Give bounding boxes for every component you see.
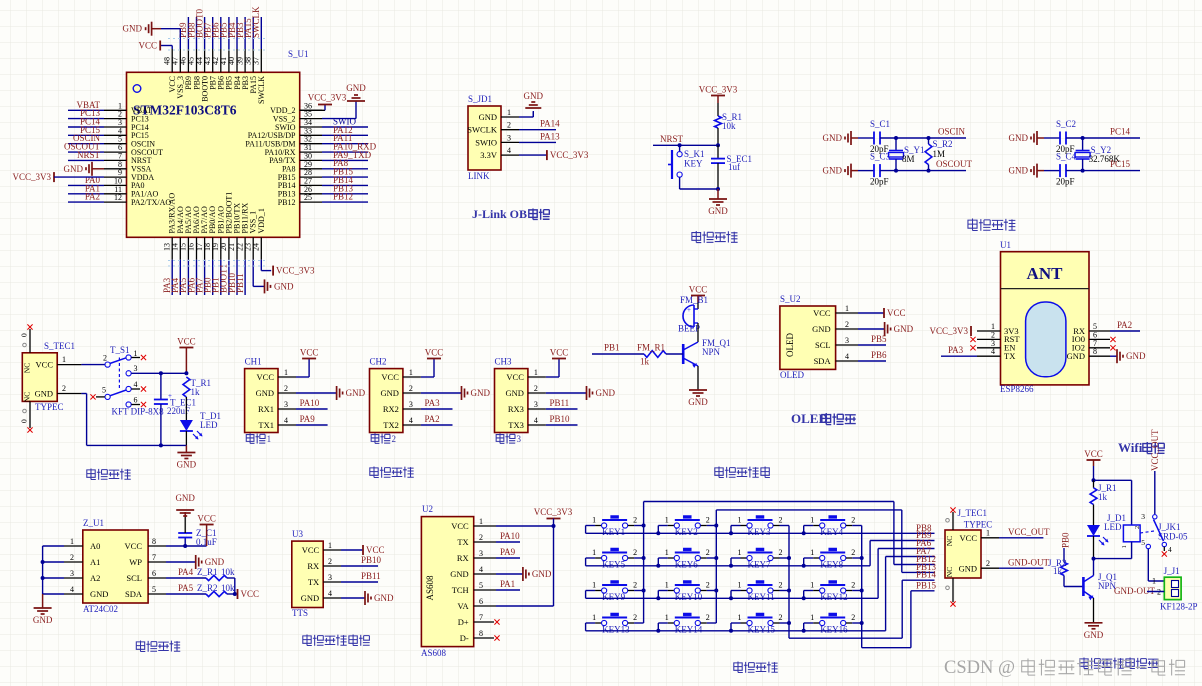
- svg-text:VCC: VCC: [300, 348, 319, 358]
- svg-text:4: 4: [507, 146, 511, 155]
- svg-text:0: 0: [20, 419, 29, 423]
- svg-text:2: 2: [633, 581, 637, 590]
- svg-text:2: 2: [479, 533, 483, 542]
- svg-text:VCC: VCC: [813, 308, 831, 318]
- svg-text:VCC: VCC: [960, 533, 978, 543]
- svg-text:24: 24: [252, 243, 261, 251]
- svg-text:RX3: RX3: [508, 404, 524, 414]
- svg-text:GND: GND: [64, 164, 84, 174]
- svg-text:1: 1: [665, 516, 669, 525]
- svg-text:KEY7: KEY7: [748, 560, 771, 570]
- svg-text:2: 2: [845, 320, 849, 329]
- svg-text:KEY: KEY: [684, 159, 703, 169]
- svg-text:GND: GND: [708, 206, 728, 216]
- svg-text:WP: WP: [129, 557, 142, 567]
- svg-text:PA14: PA14: [540, 119, 560, 129]
- svg-text:1: 1: [738, 548, 742, 557]
- svg-text:2: 2: [392, 434, 397, 444]
- svg-text:1: 1: [738, 581, 742, 590]
- svg-text:AS608: AS608: [421, 648, 447, 658]
- svg-text:KEY15: KEY15: [748, 625, 776, 635]
- svg-text:3: 3: [507, 133, 511, 142]
- svg-text:SWIO: SWIO: [475, 137, 497, 147]
- svg-text:2: 2: [986, 559, 990, 568]
- svg-text:GND: GND: [374, 593, 394, 603]
- svg-text:5: 5: [102, 386, 106, 395]
- svg-text:VCC: VCC: [451, 521, 469, 531]
- svg-text:SDA: SDA: [814, 356, 832, 366]
- svg-text:PB11: PB11: [235, 273, 245, 293]
- svg-text:8: 8: [479, 629, 483, 638]
- svg-text:KEY13: KEY13: [602, 625, 630, 635]
- svg-text:PA3: PA3: [425, 398, 441, 408]
- svg-text:1k: 1k: [1053, 566, 1063, 576]
- svg-text:VCC: VCC: [887, 308, 906, 318]
- svg-text:KEY8: KEY8: [820, 560, 843, 570]
- svg-text:PA4: PA4: [178, 567, 194, 577]
- svg-text:KEY11: KEY11: [748, 592, 775, 602]
- svg-text:PB5: PB5: [871, 334, 887, 344]
- svg-text:PA1: PA1: [500, 579, 515, 589]
- svg-text:SWCLK: SWCLK: [257, 76, 266, 104]
- svg-text:NPN: NPN: [702, 347, 721, 357]
- svg-text:GND: GND: [596, 388, 616, 398]
- svg-text:LINK: LINK: [468, 171, 490, 181]
- svg-text:GND: GND: [471, 388, 491, 398]
- svg-text:1: 1: [592, 548, 596, 557]
- svg-text:GND-OUT: GND-OUT: [1008, 558, 1049, 568]
- svg-text:4: 4: [284, 416, 288, 425]
- svg-text:2: 2: [62, 384, 66, 393]
- svg-text:2: 2: [633, 516, 637, 525]
- svg-text:1k: 1k: [640, 357, 650, 367]
- svg-text:4: 4: [845, 352, 849, 361]
- svg-text:GND: GND: [380, 388, 398, 398]
- svg-text:ESP8266: ESP8266: [1000, 384, 1034, 394]
- svg-text:PB1: PB1: [604, 343, 620, 353]
- svg-text:2: 2: [1134, 526, 1141, 529]
- svg-text:GND: GND: [479, 112, 497, 122]
- svg-text:2: 2: [534, 384, 538, 393]
- svg-text:PA2: PA2: [85, 192, 100, 202]
- svg-text:1: 1: [284, 368, 288, 377]
- svg-text:10k: 10k: [221, 567, 235, 577]
- svg-text:PB0: PB0: [1061, 532, 1071, 548]
- svg-text:1: 1: [810, 581, 814, 590]
- svg-text:2: 2: [779, 548, 783, 557]
- svg-text:1: 1: [592, 613, 596, 622]
- svg-text:OSCIN: OSCIN: [938, 127, 966, 137]
- svg-text:8: 8: [1093, 347, 1097, 356]
- svg-text:PA10: PA10: [300, 398, 320, 408]
- svg-text:1: 1: [986, 529, 990, 538]
- svg-text:GND: GND: [256, 388, 274, 398]
- svg-text:CH1: CH1: [245, 357, 262, 367]
- svg-text:NC: NC: [945, 567, 954, 577]
- svg-text:VCC: VCC: [257, 372, 275, 382]
- svg-text:Z_U1: Z_U1: [83, 518, 104, 528]
- svg-text:VCC: VCC: [36, 360, 54, 370]
- svg-text:1M: 1M: [933, 149, 946, 159]
- svg-text:GND: GND: [346, 388, 366, 398]
- svg-text:3: 3: [70, 569, 74, 578]
- svg-text:OLED: OLED: [785, 333, 795, 357]
- svg-text:VCC_3V3: VCC_3V3: [308, 93, 347, 103]
- svg-text:S_C1: S_C1: [870, 119, 890, 129]
- svg-text:PB10: PB10: [550, 414, 571, 424]
- svg-text:1: 1: [134, 349, 138, 358]
- svg-text:KFT DIP-8X8: KFT DIP-8X8: [112, 407, 165, 417]
- svg-text:6: 6: [479, 597, 483, 606]
- svg-text:GND: GND: [1009, 166, 1029, 176]
- svg-text:GND: GND: [123, 24, 143, 34]
- svg-text:VDD_1: VDD_1: [257, 208, 266, 233]
- svg-text:SCL: SCL: [815, 340, 831, 350]
- svg-text:1: 1: [738, 613, 742, 622]
- svg-text:PC15: PC15: [1110, 159, 1131, 169]
- svg-text:GND: GND: [688, 397, 708, 407]
- svg-text:NRST: NRST: [660, 134, 684, 144]
- svg-text:J_J1: J_J1: [1164, 566, 1180, 576]
- svg-text:1: 1: [810, 613, 814, 622]
- svg-text:GND: GND: [959, 564, 977, 574]
- svg-text:2: 2: [851, 516, 855, 525]
- svg-text:4: 4: [328, 589, 332, 598]
- svg-text:1: 1: [665, 581, 669, 590]
- svg-text:U3: U3: [292, 529, 303, 539]
- svg-text:VCC_3V3: VCC_3V3: [12, 172, 51, 182]
- svg-text:3: 3: [517, 434, 522, 444]
- svg-text:TX2: TX2: [383, 420, 399, 430]
- svg-text:A1: A1: [90, 557, 100, 567]
- svg-text:SDA: SDA: [125, 589, 143, 599]
- svg-text:1: 1: [479, 517, 483, 526]
- svg-text:GND: GND: [1009, 133, 1029, 143]
- svg-text:GND: GND: [823, 166, 843, 176]
- svg-text:NRST: NRST: [77, 150, 101, 160]
- svg-text:GND: GND: [177, 460, 197, 470]
- svg-text:ANT: ANT: [1027, 264, 1064, 283]
- svg-text:2: 2: [706, 548, 710, 557]
- svg-text:PA9: PA9: [500, 547, 516, 557]
- svg-text:3: 3: [1141, 512, 1145, 521]
- svg-text:OSCOUT: OSCOUT: [936, 159, 973, 169]
- svg-text:5: 5: [1141, 538, 1145, 547]
- svg-text:GND: GND: [175, 493, 195, 503]
- svg-text:GND: GND: [1067, 351, 1085, 361]
- svg-text:U1: U1: [1000, 240, 1011, 250]
- svg-text:D+: D+: [458, 617, 469, 627]
- svg-text:1: 1: [845, 304, 849, 313]
- svg-text:25: 25: [304, 193, 312, 202]
- svg-text:VCC_3V3: VCC_3V3: [699, 85, 738, 95]
- svg-text:VCC: VCC: [125, 541, 143, 551]
- svg-text:SWCLK: SWCLK: [251, 6, 261, 38]
- svg-text:VCC: VCC: [689, 285, 708, 295]
- svg-text:4: 4: [134, 380, 138, 389]
- svg-text:TX: TX: [308, 577, 319, 587]
- svg-text:VCC: VCC: [138, 41, 157, 51]
- svg-text:PA13: PA13: [540, 131, 560, 141]
- svg-text:CSDN @: CSDN @: [944, 658, 1015, 678]
- svg-text:3: 3: [134, 364, 138, 373]
- svg-text:2: 2: [851, 613, 855, 622]
- svg-text:5: 5: [152, 585, 156, 594]
- svg-text:2: 2: [633, 613, 637, 622]
- svg-text:12: 12: [114, 193, 122, 202]
- svg-text:37: 37: [252, 57, 261, 65]
- svg-text:D-: D-: [460, 633, 469, 643]
- svg-text:GND: GND: [450, 569, 468, 579]
- svg-text:SWCLK: SWCLK: [467, 125, 498, 135]
- svg-text:PB12: PB12: [333, 192, 353, 202]
- svg-text:PA9: PA9: [300, 414, 316, 424]
- svg-text:KEY4: KEY4: [820, 527, 843, 537]
- svg-text:NPN: NPN: [1098, 581, 1117, 591]
- svg-text:S_C4: S_C4: [1056, 152, 1077, 162]
- svg-text:RX: RX: [307, 561, 319, 571]
- svg-text:KEY14: KEY14: [675, 625, 703, 635]
- svg-text:A0: A0: [90, 541, 100, 551]
- svg-text:2: 2: [103, 354, 107, 363]
- svg-text:VCC: VCC: [550, 348, 569, 358]
- svg-text:TX: TX: [457, 537, 468, 547]
- svg-text:S_C2: S_C2: [1056, 119, 1076, 129]
- svg-text:VCC: VCC: [366, 545, 385, 555]
- svg-text:TYPEC: TYPEC: [35, 402, 64, 412]
- svg-text:2: 2: [706, 613, 710, 622]
- svg-text:VCC: VCC: [381, 372, 399, 382]
- svg-text:10k: 10k: [221, 583, 235, 593]
- svg-text:1: 1: [665, 548, 669, 557]
- svg-text:T_S1: T_S1: [110, 345, 130, 355]
- svg-text:1k: 1k: [1098, 492, 1108, 502]
- svg-text:KEY9: KEY9: [602, 592, 625, 602]
- svg-text:A2: A2: [90, 573, 100, 583]
- svg-text:GND: GND: [1126, 351, 1146, 361]
- svg-text:KEY2: KEY2: [675, 527, 698, 537]
- svg-text:KEY3: KEY3: [748, 527, 771, 537]
- svg-text:GND: GND: [524, 91, 544, 101]
- svg-text:GND: GND: [1084, 630, 1104, 640]
- svg-text:2: 2: [70, 553, 74, 562]
- svg-text:VCC_3V3: VCC_3V3: [550, 150, 589, 160]
- svg-text:J_JK1: J_JK1: [1158, 522, 1181, 532]
- svg-text:S_U1: S_U1: [288, 49, 309, 59]
- svg-text:1: 1: [738, 516, 742, 525]
- svg-text:1k: 1k: [191, 387, 201, 397]
- svg-text:KEY12: KEY12: [820, 592, 848, 602]
- svg-text:TTS: TTS: [292, 608, 308, 618]
- svg-text:3: 3: [845, 336, 849, 345]
- svg-text:PA2: PA2: [1117, 320, 1132, 330]
- svg-text:1: 1: [62, 355, 66, 364]
- svg-text:4: 4: [534, 416, 538, 425]
- svg-text:4: 4: [70, 585, 74, 594]
- svg-text:NC: NC: [23, 392, 32, 402]
- svg-text:KEY16: KEY16: [820, 625, 848, 635]
- svg-text:VCC: VCC: [197, 514, 216, 524]
- svg-text:OLED: OLED: [780, 370, 804, 380]
- svg-text:GND: GND: [532, 569, 552, 579]
- svg-text:TCH: TCH: [452, 585, 469, 595]
- svg-text:2: 2: [779, 613, 783, 622]
- svg-text:VA: VA: [458, 601, 470, 611]
- svg-text:PB6: PB6: [871, 350, 887, 360]
- svg-text:VCC_OUT: VCC_OUT: [1150, 429, 1160, 471]
- svg-text:1: 1: [409, 368, 413, 377]
- svg-text:NC: NC: [945, 536, 954, 546]
- svg-text:KEY5: KEY5: [602, 560, 625, 570]
- svg-text:2: 2: [507, 121, 511, 130]
- svg-text:S_JD1: S_JD1: [468, 94, 492, 104]
- svg-text:GND: GND: [205, 557, 225, 567]
- svg-text:TX1: TX1: [258, 420, 274, 430]
- svg-text:4: 4: [991, 347, 995, 356]
- svg-text:VCC: VCC: [302, 545, 320, 555]
- svg-text:2: 2: [284, 384, 288, 393]
- svg-text:2: 2: [851, 581, 855, 590]
- svg-text:VCC: VCC: [425, 348, 444, 358]
- svg-text:2: 2: [706, 581, 710, 590]
- svg-text:2: 2: [409, 384, 413, 393]
- svg-text:PA10: PA10: [500, 531, 520, 541]
- svg-text:1: 1: [592, 516, 596, 525]
- svg-text:5: 5: [479, 581, 483, 590]
- svg-text:6: 6: [152, 569, 156, 578]
- svg-text:CH3: CH3: [495, 357, 513, 367]
- svg-text:KEY6: KEY6: [675, 560, 698, 570]
- svg-text:2: 2: [706, 516, 710, 525]
- svg-text:VCC_3V3: VCC_3V3: [534, 507, 573, 517]
- svg-text:4: 4: [1168, 545, 1172, 554]
- svg-text:GND: GND: [894, 324, 914, 334]
- svg-text:3: 3: [534, 400, 538, 409]
- svg-text:3: 3: [328, 573, 332, 582]
- svg-text:KF128-2P: KF128-2P: [1160, 602, 1198, 612]
- svg-text:2: 2: [633, 548, 637, 557]
- svg-text:RX: RX: [457, 553, 469, 563]
- svg-text:TX3: TX3: [508, 420, 524, 430]
- svg-text:6: 6: [134, 396, 138, 405]
- svg-text:VCC: VCC: [506, 372, 524, 382]
- svg-text:AS608: AS608: [425, 575, 435, 601]
- svg-text:GND: GND: [823, 133, 843, 143]
- svg-text:GND: GND: [301, 593, 319, 603]
- svg-text:GND: GND: [90, 589, 108, 599]
- svg-text:J-Link OB: J-Link OB: [472, 207, 527, 221]
- svg-text:PB12: PB12: [278, 198, 296, 207]
- svg-text:1: 1: [1121, 545, 1128, 548]
- svg-text:1: 1: [267, 434, 272, 444]
- svg-text:1: 1: [328, 541, 332, 550]
- svg-text:S_K1: S_K1: [684, 149, 705, 159]
- svg-text:PA3: PA3: [948, 345, 964, 355]
- svg-text:CH2: CH2: [370, 357, 387, 367]
- svg-text:GND: GND: [346, 83, 366, 93]
- svg-text:1: 1: [810, 516, 814, 525]
- svg-text:GND: GND: [812, 324, 830, 334]
- svg-text:VCC_3V3: VCC_3V3: [276, 266, 315, 276]
- svg-text:PB11: PB11: [361, 571, 381, 581]
- svg-text:2: 2: [328, 557, 332, 566]
- svg-text:0: 0: [20, 333, 29, 337]
- svg-text:VCC: VCC: [177, 337, 196, 347]
- svg-text:VCC: VCC: [241, 589, 260, 599]
- svg-text:+: +: [687, 306, 691, 314]
- svg-text:2: 2: [779, 581, 783, 590]
- svg-text:1: 1: [592, 581, 596, 590]
- svg-text:S_R2: S_R2: [933, 139, 953, 149]
- svg-text:GND: GND: [33, 615, 53, 625]
- svg-text:S_TEC1: S_TEC1: [44, 341, 75, 351]
- svg-text:PB10: PB10: [361, 555, 382, 565]
- svg-text:PC14: PC14: [1110, 127, 1131, 137]
- svg-text:PB15: PB15: [916, 580, 937, 590]
- svg-text:3: 3: [409, 400, 413, 409]
- svg-text:LED: LED: [1104, 522, 1122, 532]
- svg-text:4: 4: [479, 565, 483, 574]
- svg-text:AT24C02: AT24C02: [83, 604, 118, 614]
- svg-text:1: 1: [507, 108, 511, 117]
- svg-text:FM_R1: FM_R1: [637, 343, 665, 353]
- svg-text:PA5: PA5: [178, 583, 194, 593]
- svg-text:3: 3: [284, 400, 288, 409]
- svg-text:S_U2: S_U2: [780, 294, 801, 304]
- svg-text:2: 2: [779, 516, 783, 525]
- svg-text:TX: TX: [1004, 351, 1015, 361]
- svg-text:GND: GND: [274, 281, 294, 291]
- svg-text:FM_B1: FM_B1: [680, 295, 708, 305]
- svg-text:1uf: 1uf: [728, 162, 740, 172]
- svg-text:PB14: PB14: [916, 570, 937, 580]
- svg-text:VCC_3V3: VCC_3V3: [929, 326, 968, 336]
- svg-text:KEY10: KEY10: [675, 592, 703, 602]
- svg-text:--: --: [1135, 658, 1146, 675]
- svg-text:J_TEC1: J_TEC1: [958, 508, 988, 518]
- svg-text:PA2: PA2: [425, 414, 440, 424]
- svg-text:KEY1: KEY1: [602, 527, 625, 537]
- svg-text:RX1: RX1: [258, 404, 274, 414]
- svg-text:VCC_OUT: VCC_OUT: [1008, 527, 1050, 537]
- svg-text:2: 2: [851, 548, 855, 557]
- svg-text:U2: U2: [422, 504, 433, 514]
- svg-text:7: 7: [479, 613, 483, 622]
- svg-text:20pF: 20pF: [870, 177, 889, 187]
- svg-text:SCL: SCL: [126, 573, 142, 583]
- svg-text:VCC: VCC: [1084, 449, 1103, 459]
- svg-text:RX2: RX2: [383, 404, 399, 414]
- svg-text:Wifi: Wifi: [1118, 440, 1143, 455]
- svg-text:PB11: PB11: [550, 398, 570, 408]
- svg-text:20pF: 20pF: [1056, 177, 1075, 187]
- svg-text:GND: GND: [35, 389, 53, 399]
- svg-text:NC: NC: [23, 363, 32, 373]
- svg-text:LED: LED: [200, 420, 218, 430]
- svg-text:3.3V: 3.3V: [480, 150, 498, 160]
- svg-text:S_C3: S_C3: [870, 152, 891, 162]
- svg-text:BEEP: BEEP: [678, 324, 700, 334]
- svg-text:4: 4: [409, 416, 413, 425]
- svg-text:GND: GND: [505, 388, 523, 398]
- svg-text:1: 1: [665, 613, 669, 622]
- svg-text:3: 3: [479, 549, 483, 558]
- svg-text:7: 7: [152, 553, 156, 562]
- svg-text:1: 1: [1152, 577, 1156, 586]
- svg-text:1: 1: [534, 368, 538, 377]
- svg-text:8: 8: [152, 537, 156, 546]
- svg-text:8M: 8M: [902, 154, 915, 164]
